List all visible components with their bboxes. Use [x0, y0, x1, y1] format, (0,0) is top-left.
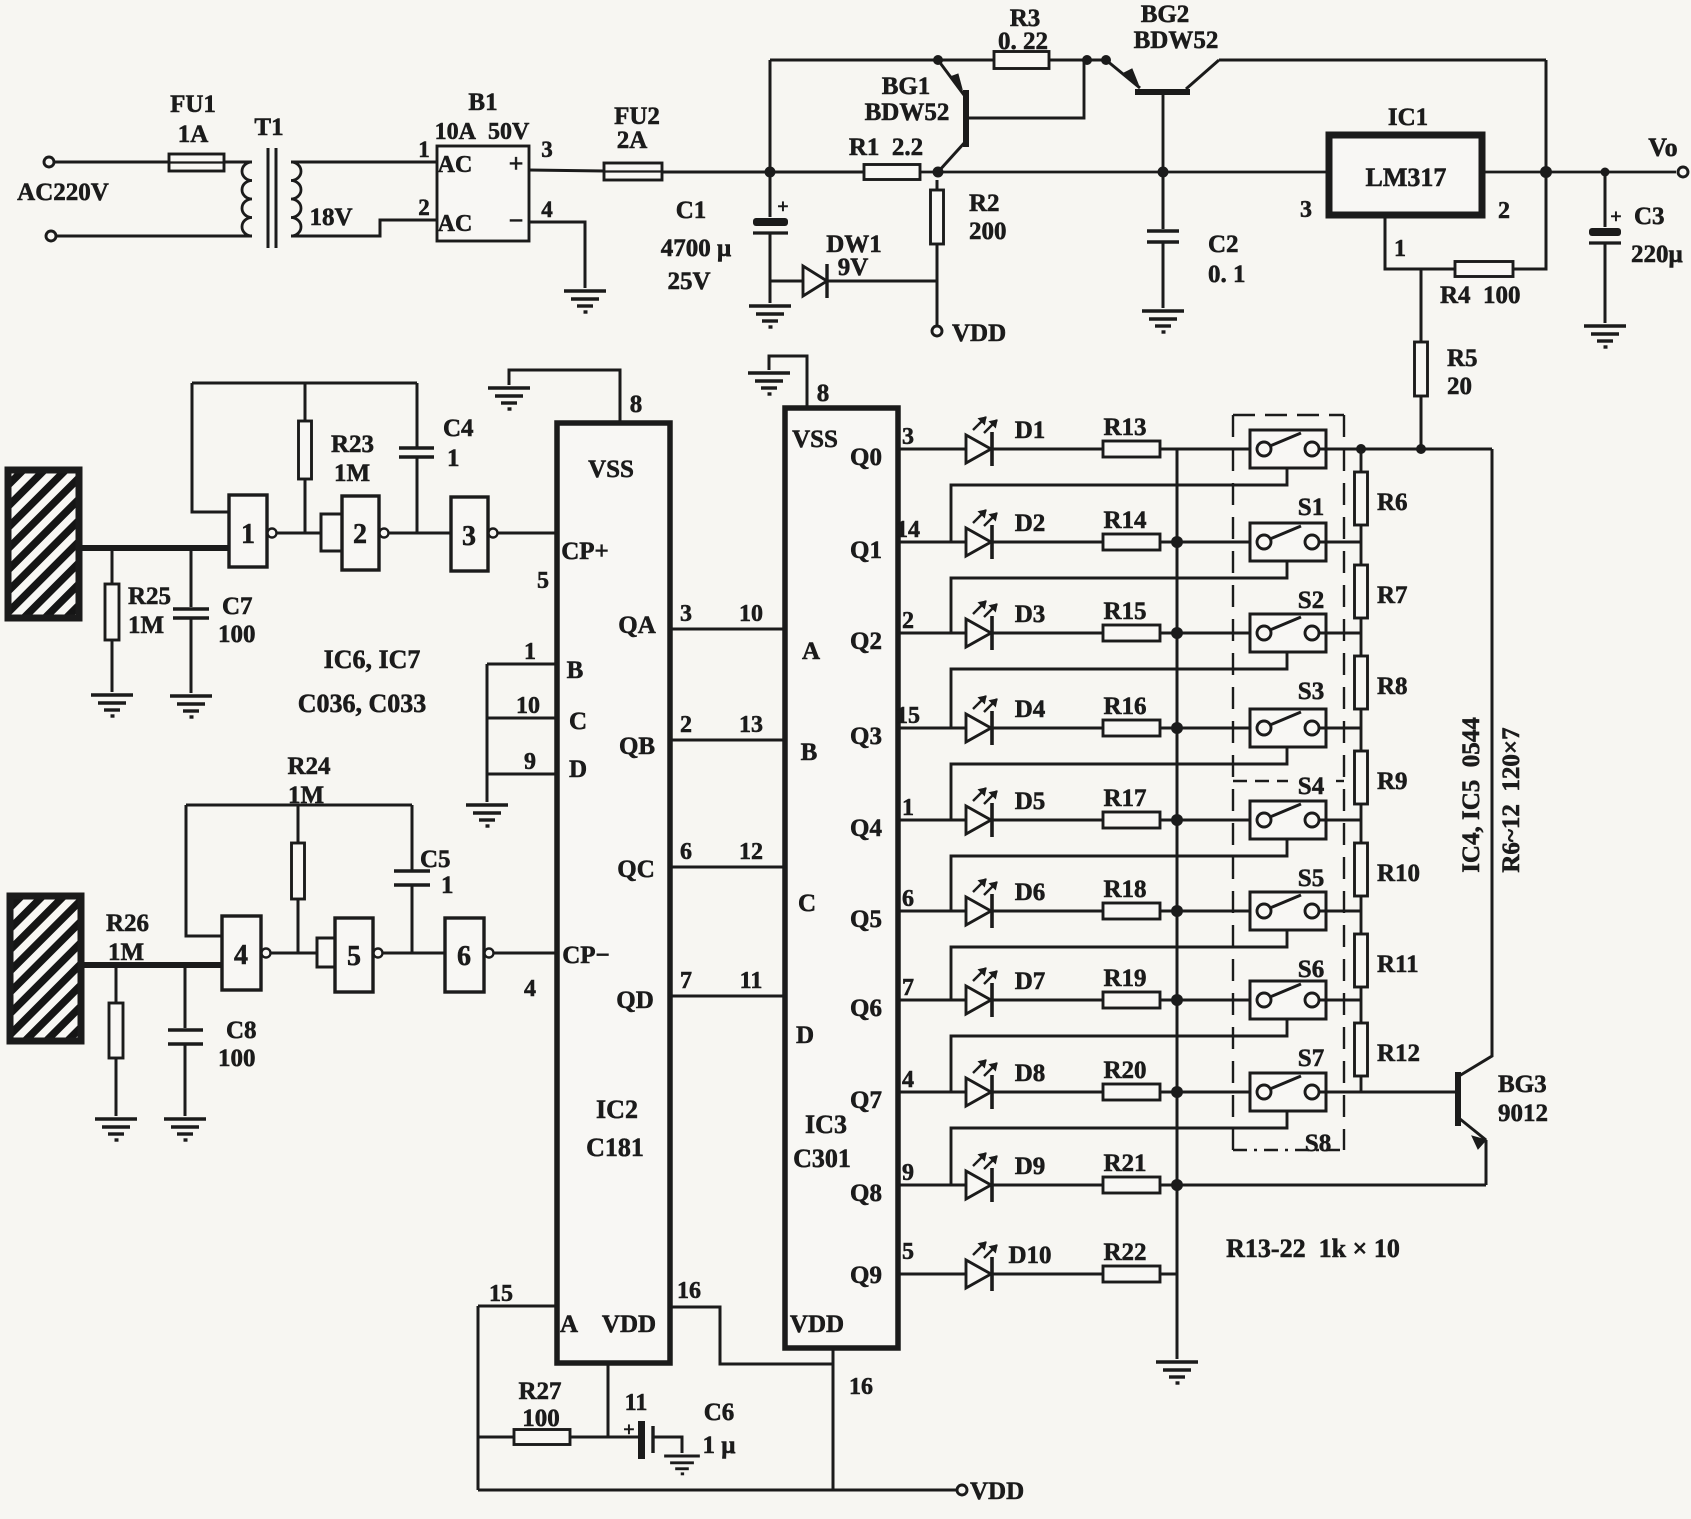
svg-text:R8: R8: [1377, 673, 1408, 700]
terminal AC input bottom: [46, 231, 56, 241]
svg-text:S1: S1: [1298, 494, 1324, 521]
inverter gate 2: [321, 514, 342, 551]
svg-text:R21: R21: [1103, 1150, 1146, 1177]
wire R24 to gate wire: [297, 899, 300, 953]
wire R12 node to BG3 base: [1361, 1091, 1455, 1094]
svg-text:VDD: VDD: [602, 1311, 656, 1338]
wire node to C2: [1162, 172, 1165, 229]
svg-text:D3: D3: [1015, 601, 1046, 628]
svg-text:5: 5: [347, 941, 361, 972]
svg-text:−: −: [509, 206, 524, 235]
terminal VDD top: [932, 326, 942, 336]
wire BG2 collector to right drop: [1219, 59, 1546, 62]
svg-text:CP−: CP−: [562, 942, 610, 969]
resistor R25 body: [105, 584, 119, 640]
wire gate6 to CP-: [494, 952, 557, 955]
wire S8 to R chain: [1319, 1091, 1361, 1094]
resistor R16: [993, 727, 1103, 730]
wire node to R2: [936, 180, 939, 190]
wire Vo rail to C3: [1604, 172, 1607, 227]
svg-text:1: 1: [1394, 236, 1406, 262]
resistor R14: [993, 541, 1103, 544]
svg-text:D8: D8: [1015, 1060, 1046, 1087]
svg-text:C8: C8: [226, 1017, 257, 1044]
svg-text:10A 50V: 10A 50V: [435, 119, 530, 145]
ground C8: [164, 1119, 206, 1140]
resistor R27 body: [514, 1430, 570, 1445]
svg-text:10: 10: [739, 601, 763, 627]
svg-text:1 μ: 1 μ: [703, 1432, 736, 1459]
wire C pin10: [487, 717, 557, 720]
wire S3 pole to D4: [951, 652, 1287, 728]
wire AC top to FU1: [54, 161, 169, 164]
wire S2 to R chain: [1319, 541, 1361, 544]
svg-text:3: 3: [902, 424, 914, 450]
svg-text:B1: B1: [468, 89, 497, 116]
wire R4 node to R5: [1420, 269, 1423, 342]
svg-text:C1: C1: [676, 197, 707, 224]
svg-text:LM317: LM317: [1366, 163, 1447, 192]
svg-text:11: 11: [740, 968, 763, 994]
svg-text:BDW52: BDW52: [865, 99, 950, 126]
ground C6: [664, 1456, 700, 1474]
svg-text:QC: QC: [617, 856, 655, 883]
svg-text:16: 16: [677, 1278, 701, 1304]
IC2 C181 counter: [557, 423, 670, 1363]
transistor BG1: [938, 60, 1084, 172]
svg-text:VDD: VDD: [970, 1478, 1024, 1505]
svg-text:R1 2.2: R1 2.2: [849, 134, 923, 161]
svg-text:Q7: Q7: [850, 1087, 882, 1114]
svg-text:C4: C4: [443, 415, 474, 442]
ground C7: [170, 696, 212, 717]
svg-text:IC1: IC1: [1388, 104, 1428, 131]
wire S2 pole to D3: [951, 561, 1287, 633]
svg-text:BG1: BG1: [882, 73, 931, 100]
wire R3 to BG2 emitter node: [1049, 59, 1106, 62]
wire bus to S7: [1177, 999, 1257, 1002]
svg-text:R11: R11: [1377, 951, 1419, 978]
resistor R9: [1360, 728, 1363, 751]
svg-text:1: 1: [241, 519, 255, 550]
wire S4 pole to D5: [951, 747, 1287, 820]
svg-text:R10: R10: [1377, 860, 1420, 887]
svg-text:R9: R9: [1377, 768, 1408, 795]
svg-text:2A: 2A: [617, 127, 648, 154]
svg-text:8: 8: [817, 380, 830, 407]
svg-text:200: 200: [969, 218, 1007, 245]
svg-text:IC2: IC2: [596, 1095, 638, 1124]
svg-text:QD: QD: [616, 987, 654, 1014]
svg-text:1A: 1A: [178, 121, 209, 148]
svg-text:8: 8: [630, 391, 643, 418]
svg-text:R5: R5: [1447, 345, 1478, 372]
ground R26: [95, 1119, 137, 1140]
LED D3: [898, 601, 997, 650]
wire to C1: [769, 172, 772, 217]
wire C2 to ground: [1162, 242, 1165, 308]
svg-text:C5: C5: [420, 846, 451, 873]
wire VDD bottom rail: [478, 1489, 957, 1492]
resistor R18: [993, 910, 1103, 913]
wire IC3 pin8 to ground: [769, 356, 807, 408]
svg-text:Q6: Q6: [850, 995, 882, 1022]
transistor BG2: [1106, 60, 1219, 172]
svg-text:D5: D5: [1015, 788, 1046, 815]
svg-text:1: 1: [902, 795, 914, 821]
wire top rail left drop: [769, 60, 772, 172]
svg-text:S6: S6: [1298, 956, 1324, 983]
ground IC3 VSS: [748, 373, 790, 394]
svg-text:R7: R7: [1377, 582, 1408, 609]
wire C4 to gate wire: [416, 457, 419, 533]
wire QB-B: [670, 739, 785, 742]
inverter gate 3: [451, 497, 488, 571]
LED D1: [898, 417, 997, 466]
wire S1 pole to D2: [951, 468, 1287, 542]
wire LED bus: [1176, 449, 1179, 1359]
wire loop to C5: [411, 805, 414, 870]
svg-text:100: 100: [218, 621, 256, 648]
svg-text:S8: S8: [1305, 1130, 1331, 1157]
wire bus to S6: [1177, 910, 1257, 913]
wire S3 to R chain: [1319, 632, 1361, 635]
LED D7: [898, 968, 997, 1017]
svg-text:2: 2: [680, 712, 692, 738]
svg-text:FU2: FU2: [614, 103, 660, 130]
svg-text:R12: R12: [1377, 1040, 1420, 1067]
wire R5 to S1 row: [1420, 396, 1423, 452]
touch plate 2: [10, 896, 81, 1041]
svg-text:+: +: [509, 149, 524, 178]
svg-text:2: 2: [418, 195, 430, 220]
svg-text:C301: C301: [793, 1144, 851, 1173]
wire B1 pin4 to ground: [529, 222, 585, 288]
svg-text:1: 1: [441, 872, 454, 899]
svg-text:1M: 1M: [128, 612, 164, 639]
svg-text:R13: R13: [1103, 414, 1146, 441]
inverter gate 4: [222, 916, 261, 990]
junction node C2: [1158, 167, 1169, 178]
svg-text:AC220V: AC220V: [17, 179, 109, 206]
svg-text:4: 4: [234, 940, 248, 971]
svg-text:1M: 1M: [108, 939, 144, 966]
svg-text:+: +: [623, 1419, 634, 1441]
resistor R3 body: [994, 52, 1049, 69]
wire right rail: [1459, 449, 1492, 1076]
svg-text:C036, C033: C036, C033: [298, 689, 427, 718]
svg-text:B: B: [567, 657, 584, 684]
svg-text:Q9: Q9: [850, 1262, 882, 1289]
wire IC1 pin1 to R4: [1385, 215, 1455, 269]
svg-text:R23: R23: [331, 431, 374, 458]
svg-text:Q1: Q1: [850, 537, 882, 564]
resistor R19: [993, 999, 1103, 1002]
junction node R1/R2/BG1e: [933, 167, 944, 178]
wire C5 to gate wire: [411, 885, 414, 953]
svg-text:IC4, IC5 0544: IC4, IC5 0544: [1458, 717, 1485, 873]
ground C3: [1584, 326, 1626, 347]
LED D9: [898, 1153, 997, 1202]
svg-text:100: 100: [218, 1045, 256, 1072]
svg-text:R13-22 1k × 10: R13-22 1k × 10: [1226, 1234, 1400, 1263]
svg-text:Q4: Q4: [850, 815, 882, 842]
svg-text:S2: S2: [1298, 587, 1324, 614]
wire C1 to DW1: [770, 280, 803, 283]
wire D9 row to BG3 emitter: [1177, 1184, 1486, 1187]
wire FU1 to T1: [224, 161, 252, 164]
wire IC3 pin16 to VDD rail: [832, 1348, 835, 1490]
wire BG3 emitter down: [1485, 1140, 1488, 1185]
svg-text:18V: 18V: [309, 204, 352, 231]
svg-text:3: 3: [680, 601, 692, 627]
resistor R1 body: [864, 165, 920, 180]
wire feedback loop 2 left: [186, 805, 222, 936]
svg-text:R19: R19: [1103, 965, 1146, 992]
wire R4 to Vo rail: [1513, 172, 1546, 269]
wire D pin9: [487, 773, 557, 776]
wire R25 to ground: [111, 640, 114, 692]
svg-text:R17: R17: [1103, 785, 1146, 812]
svg-text:AC: AC: [438, 152, 473, 178]
svg-text:14: 14: [896, 517, 920, 543]
svg-text:R4 100: R4 100: [1440, 282, 1521, 309]
wire IC1 pin2 to Vo: [1482, 171, 1676, 174]
wire IC2 pin8 to ground: [509, 370, 620, 423]
terminal Vo: [1678, 167, 1688, 177]
resistor R24 body: [292, 843, 305, 899]
wire C6 to ground: [653, 1437, 682, 1453]
svg-text:D6: D6: [1015, 879, 1046, 906]
op-amp/regulator IC1 LM317: [1329, 135, 1482, 215]
svg-text:S5: S5: [1298, 865, 1324, 892]
wire S6 to R chain: [1319, 910, 1361, 913]
wire loop to R23: [304, 383, 307, 421]
resistor R26 body: [109, 1003, 123, 1058]
wire to C7: [190, 548, 193, 607]
wire loop to C4: [416, 383, 419, 447]
wire R23 to gate wire: [304, 479, 307, 533]
wire feedback loop 1 top: [192, 382, 417, 385]
wire gate3 to CP+: [498, 532, 557, 535]
svg-text:FU1: FU1: [170, 91, 216, 118]
svg-text:C6: C6: [704, 1399, 735, 1426]
inverter gate 1: [229, 495, 267, 567]
resistor R2 body: [931, 190, 944, 244]
wire C7 to ground: [190, 618, 193, 693]
svg-text:R20: R20: [1103, 1057, 1146, 1084]
LED D10: [898, 1242, 997, 1291]
resistor R20: [993, 1091, 1103, 1094]
resistor R6: [1360, 449, 1363, 472]
svg-text:Q3: Q3: [850, 723, 882, 750]
resistor R5 body: [1415, 342, 1428, 396]
ground C2: [1142, 311, 1184, 332]
svg-text:25V: 25V: [667, 268, 710, 295]
svg-text:C3: C3: [1634, 203, 1665, 230]
wire touch plate 2 to gate 4: [81, 962, 222, 968]
wire QA-A: [670, 628, 785, 631]
wire S7 to R chain: [1319, 999, 1361, 1002]
junction node Vo/R4: [1540, 166, 1552, 178]
resistor R13: [993, 448, 1103, 451]
svg-text:D: D: [796, 1022, 814, 1049]
terminal VDD bottom: [957, 1485, 967, 1495]
svg-text:BG2: BG2: [1141, 1, 1190, 28]
svg-text:IC6, IC7: IC6, IC7: [324, 645, 421, 674]
svg-text:D1: D1: [1015, 417, 1046, 444]
wire S5 to R chain: [1319, 819, 1361, 822]
LED D4: [898, 696, 997, 745]
svg-text:BDW52: BDW52: [1134, 27, 1219, 54]
wire touch plate 1 to gate 1: [79, 545, 229, 551]
wire C8 to ground: [184, 1044, 187, 1116]
LED D2: [898, 510, 997, 559]
svg-text:R18: R18: [1103, 876, 1146, 903]
resistor R10: [1360, 820, 1363, 843]
svg-text:1M: 1M: [334, 460, 370, 487]
inverter gate 6: [445, 918, 484, 992]
svg-text:R25: R25: [128, 583, 171, 610]
svg-text:D2: D2: [1015, 510, 1046, 537]
wire QD-D: [670, 995, 785, 998]
ground IC2 VSS: [488, 388, 530, 409]
svg-text:VDD: VDD: [790, 1311, 844, 1338]
wire to R25: [111, 548, 114, 584]
wire pin15: [478, 1305, 557, 1308]
terminal AC input top: [44, 157, 54, 167]
svg-text:S4: S4: [1298, 773, 1325, 800]
svg-text:D4: D4: [1015, 696, 1046, 723]
svg-text:1: 1: [447, 445, 460, 472]
svg-text:C: C: [798, 890, 816, 917]
ground R25: [91, 695, 133, 716]
svg-text:D10: D10: [1008, 1242, 1051, 1269]
svg-text:C181: C181: [586, 1133, 644, 1162]
resistor R17: [993, 819, 1103, 822]
svg-text:13: 13: [739, 712, 763, 738]
svg-text:CP+: CP+: [561, 538, 609, 565]
svg-text:R26: R26: [106, 910, 149, 937]
svg-text:0. 1: 0. 1: [1208, 261, 1246, 288]
svg-text:QB: QB: [619, 733, 655, 760]
svg-text:Q2: Q2: [850, 628, 882, 655]
svg-text:Vo: Vo: [1648, 133, 1677, 162]
svg-text:S7: S7: [1298, 1045, 1324, 1072]
svg-text:AC: AC: [438, 211, 473, 237]
resistor R4 body: [1455, 262, 1513, 277]
wire gate5 to gate6: [383, 952, 445, 955]
svg-text:2: 2: [1498, 198, 1510, 224]
junction node C3: [1601, 168, 1610, 177]
svg-text:R16: R16: [1103, 693, 1146, 720]
svg-text:QA: QA: [618, 612, 656, 639]
svg-text:3: 3: [1300, 197, 1312, 223]
wire rail to R27: [478, 1436, 514, 1439]
svg-text:4: 4: [524, 976, 536, 1002]
wire R26 to ground: [115, 1058, 118, 1116]
svg-text:10: 10: [516, 693, 540, 719]
svg-text:12: 12: [739, 839, 763, 865]
svg-text:D: D: [569, 756, 587, 783]
svg-text:5: 5: [537, 568, 549, 594]
svg-text:6: 6: [457, 941, 471, 972]
svg-text:IC3: IC3: [805, 1110, 847, 1139]
wire gate1 to gate2: [277, 532, 321, 535]
svg-text:R27: R27: [518, 1378, 561, 1405]
svg-text:4700 μ: 4700 μ: [661, 235, 731, 262]
resistor R12: [1360, 1000, 1363, 1023]
resistor R23 body: [299, 421, 312, 479]
svg-text:3: 3: [462, 521, 476, 552]
svg-text:D7: D7: [1015, 968, 1046, 995]
svg-text:100: 100: [522, 1405, 560, 1432]
svg-text:9012: 9012: [1498, 1100, 1548, 1127]
svg-text:1M: 1M: [288, 782, 324, 809]
svg-text:BG3: BG3: [1498, 1071, 1547, 1098]
svg-text:VDD: VDD: [952, 320, 1006, 347]
resistor R11: [1360, 911, 1363, 934]
touch plate 1: [8, 470, 79, 618]
svg-text:VSS: VSS: [792, 426, 838, 453]
capacitor C6: [638, 1421, 645, 1459]
wire loop to R24: [297, 805, 300, 843]
svg-text:20: 20: [1447, 373, 1472, 400]
svg-text:3: 3: [541, 137, 553, 162]
transistor BG3: [1458, 1072, 1486, 1149]
wire T1 secondary bottom to B1 pin2: [291, 220, 437, 236]
LED D6: [898, 879, 997, 928]
LED D8: [898, 1060, 997, 1109]
fuse FU1: [169, 154, 224, 171]
junction node C1 top: [765, 167, 776, 178]
ground C1: [749, 306, 791, 327]
svg-text:1: 1: [418, 137, 430, 162]
transformer T1 primary winding: [242, 162, 252, 236]
wire IC2 pin11 down: [607, 1363, 610, 1437]
wire feedback loop 2 top: [186, 804, 412, 807]
wire feedback loop 1 left: [192, 383, 229, 512]
IC3 C301 decoder: [785, 408, 898, 1348]
svg-text:16: 16: [849, 1374, 873, 1400]
svg-text:B: B: [801, 739, 818, 766]
resistor R7: [1360, 542, 1363, 565]
dashed selector box: [1233, 415, 1344, 1150]
svg-text:Q5: Q5: [850, 906, 882, 933]
wire bus to S4: [1177, 727, 1257, 730]
svg-text:2: 2: [353, 519, 367, 550]
wire B pin1: [487, 663, 557, 666]
svg-text:4: 4: [902, 1067, 914, 1093]
wire S4 to R chain: [1319, 727, 1361, 730]
svg-text:R6: R6: [1377, 489, 1408, 516]
wire R1 to IC1 pin3: [920, 171, 1329, 174]
wire bus to S5: [1177, 819, 1257, 822]
wire S6 pole to D7: [951, 930, 1287, 1000]
wire to C8: [184, 965, 187, 1028]
wire FU2 to R1 via C1 node: [662, 171, 864, 174]
wire bus to S8: [1177, 1091, 1257, 1094]
bridge rectifier B1: [437, 146, 529, 241]
svg-text:R15: R15: [1103, 598, 1146, 625]
wire top rail to R3: [770, 59, 994, 62]
svg-text:Q8: Q8: [850, 1180, 882, 1207]
svg-text:S3: S3: [1298, 678, 1324, 705]
svg-text:+: +: [1610, 206, 1621, 228]
svg-text:C7: C7: [222, 593, 253, 620]
LED D5: [898, 788, 997, 837]
junction node BG1 base: [1082, 55, 1092, 65]
